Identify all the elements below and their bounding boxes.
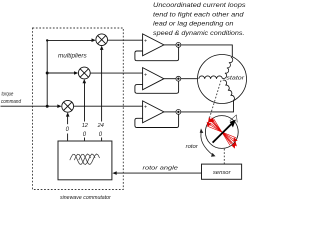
node U3 output terminal — [176, 110, 181, 115]
wire M1 output to op-amp U1 — [108, 39, 143, 41]
wire vertical torque bus — [47, 40, 94, 106]
node junction on torque bus — [46, 105, 49, 108]
arrowhead up into M3 bottom — [66, 112, 70, 116]
sinewave phase B — [74, 154, 95, 165]
dashed boundary of sinewave commutator subsystem — [33, 28, 124, 190]
svg-text:torque: torque — [2, 91, 14, 97]
svg-text:24: 24 — [97, 123, 104, 129]
multiplier M3 — [62, 100, 74, 112]
annotation text top right — [153, 2, 246, 37]
oscillation arc arrow — [201, 131, 213, 156]
arrowhead up into M1 bottom — [100, 46, 104, 50]
wire U1 to stator top winding — [181, 45, 233, 57]
node junction bus to M2 — [46, 72, 49, 75]
svg-text:+: + — [144, 105, 147, 111]
svg-text:speed & dynamic conditions.: speed & dynamic conditions. — [153, 30, 245, 37]
svg-text:+: + — [144, 39, 147, 45]
stator winding left (inductor) — [199, 76, 223, 79]
wire M2 output to op-amp U2 — [90, 72, 142, 74]
svg-text:stator: stator — [226, 75, 245, 81]
wire bus to M2 — [47, 72, 75, 74]
wire rotor angle to commutator — [116, 172, 202, 174]
wire U3 to stator bottom winding — [181, 101, 234, 112]
svg-text:Uncoordinated current loops: Uncoordinated current loops — [153, 2, 246, 9]
op-amp U3 — [143, 101, 164, 123]
ghost arrowhead (vibration) — [230, 115, 237, 123]
red arrowheads NW cluster — [207, 117, 215, 127]
arrowhead into commutator box — [112, 171, 116, 175]
op-amp U1 — [143, 34, 164, 56]
multiplier M1 — [96, 34, 108, 46]
arrowhead into multiplier M3 — [57, 104, 61, 108]
dashed link rotor to sensor — [223, 149, 225, 164]
svg-text:rotor: rotor — [186, 144, 199, 150]
svg-text:command: command — [1, 99, 22, 105]
svg-text:sinewave commutator: sinewave commutator — [60, 195, 112, 201]
svg-text:+: + — [144, 72, 147, 78]
svg-text:rotor angle: rotor angle — [143, 166, 179, 172]
op-amp U2 — [143, 68, 164, 90]
sinewave phase A — [70, 154, 91, 165]
dashed link stator field to rotor — [209, 81, 221, 119]
svg-text:tend to fight each other and: tend to fight each other and — [153, 11, 244, 18]
stator winding top (inductor) — [223, 57, 233, 78]
rotor circle — [205, 116, 238, 149]
wire U3 output stub — [164, 111, 176, 113]
svg-text:multipliers: multipliers — [58, 54, 87, 60]
arrowhead up into M2 bottom — [83, 79, 87, 83]
node U2 output terminal — [176, 76, 181, 81]
wire U1 feedback loop — [135, 47, 179, 60]
svg-text:12: 12 — [82, 123, 89, 129]
wire phase 0 vertical from commutator to M3 — [67, 116, 69, 125]
wire U2 output stub — [164, 78, 176, 80]
wire U2 to stator left winding — [181, 78, 199, 80]
wire phase 120 vertical from commutator to M2 — [84, 82, 86, 121]
stator circle — [198, 55, 247, 104]
svg-text:sensor: sensor — [213, 170, 232, 176]
rotor magnet arrow — [213, 124, 232, 142]
wire phase 240 vertical from commutator to M1 — [101, 49, 103, 122]
arrowhead into multiplier M1 — [92, 38, 96, 42]
svg-text:lead or lag depending on: lead or lag depending on — [153, 20, 234, 27]
wire U3 feedback loop — [135, 114, 179, 127]
sensor box — [202, 164, 242, 179]
node U1 output terminal — [176, 43, 181, 48]
wire torque command input — [1, 105, 59, 107]
red arrowheads SE cluster — [232, 137, 238, 148]
wire U2 feedback loop — [135, 81, 179, 93]
node corner bus top — [46, 39, 48, 41]
wire M3 output to op-amp U3 — [74, 105, 143, 107]
red oscillating field arrows — [207, 118, 236, 146]
arrowhead into multiplier M2 — [74, 71, 78, 75]
stator winding bottom (inductor) — [223, 80, 235, 101]
sinewave commutator box — [58, 141, 112, 180]
multiplier M2 — [78, 67, 90, 79]
wire U1 output stub — [164, 44, 176, 46]
sinewave phase C — [79, 154, 100, 165]
